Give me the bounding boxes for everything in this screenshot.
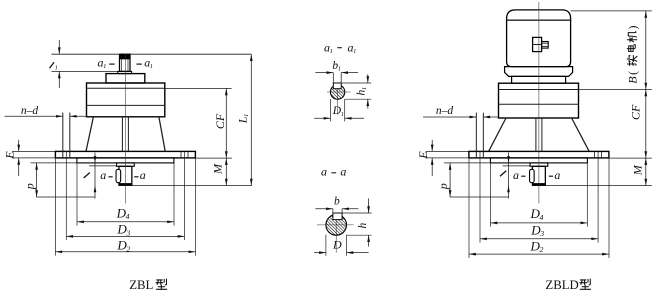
svg-text:b: b (334, 195, 340, 207)
svg-text:): ) (628, 25, 640, 29)
svg-text:CF: CF (629, 104, 643, 120)
svg-text:n–d: n–d (436, 105, 454, 117)
svg-text:p: p (23, 183, 37, 190)
svg-text:E: E (2, 151, 16, 160)
svg-text:E: E (416, 151, 430, 160)
svg-text:a: a (321, 165, 327, 179)
svg-text:a: a (340, 165, 346, 179)
svg-text:a: a (513, 168, 519, 182)
svg-text:B: B (626, 76, 640, 84)
svg-text:a: a (554, 168, 560, 182)
svg-text:CF: CF (213, 113, 227, 129)
svg-text:D: D (332, 238, 342, 252)
svg-text:1: 1 (55, 64, 58, 71)
svg-text:h: h (357, 222, 369, 228)
svg-text:a: a (140, 168, 146, 182)
svg-text:a: a (100, 168, 106, 182)
svg-text:M: M (631, 164, 645, 176)
svg-text:p: p (436, 183, 450, 190)
svg-text:ZBLD: ZBLD (545, 278, 578, 292)
svg-text:M: M (211, 163, 225, 175)
svg-text:(: ( (628, 71, 640, 75)
svg-text:ZBL: ZBL (129, 278, 153, 292)
svg-text:n–d: n–d (21, 105, 39, 117)
